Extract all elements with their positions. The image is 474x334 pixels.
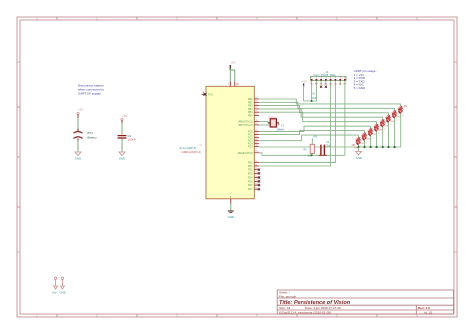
junction D2 bus xyxy=(394,146,396,148)
svg-text:Date: 4 jun 2008 17:27:49: Date: 4 jun 2008 17:27:49 xyxy=(305,306,341,310)
junction D5 bus xyxy=(376,146,378,148)
pin 8 GND stub xyxy=(230,199,232,204)
svg-text:D1: D1 xyxy=(394,112,398,116)
svg-text:+5V: +5V xyxy=(302,79,307,83)
power flag GND xyxy=(60,277,64,289)
wire RESET xyxy=(259,153,345,156)
svg-text:Size: A4: Size: A4 xyxy=(279,306,291,310)
junction D8 bus xyxy=(357,146,359,148)
svg-text:B: B xyxy=(17,155,19,159)
capacitor C2 xyxy=(319,141,332,155)
LED D5 xyxy=(370,127,381,136)
resistor R1 xyxy=(399,106,402,109)
svg-text:File: pov.sch: File: pov.sch xyxy=(279,294,296,298)
wire R2 anode drop xyxy=(394,108,396,111)
svg-text:KiCad E.D.A. eeschema (2010-0: KiCad E.D.A. eeschema (2010-01-05) xyxy=(279,311,331,315)
wire AVCC branch xyxy=(230,70,235,82)
svg-text:D8: D8 xyxy=(352,143,356,147)
svg-text:B: B xyxy=(454,155,456,159)
power flag +5V xyxy=(54,277,58,289)
wire D2 cathode xyxy=(394,118,396,147)
pin 23 PC0 xyxy=(248,130,259,134)
LED D1 xyxy=(394,109,405,118)
note: battery disconnect warning xyxy=(78,84,104,96)
svg-text:PB5: PB5 xyxy=(248,115,253,118)
ground (battery) xyxy=(75,152,81,156)
pin 10 (PB7/XTAL2) xyxy=(238,123,259,127)
wire VCC xyxy=(229,68,231,82)
svg-text:PD1: PD1 xyxy=(248,165,253,168)
svg-text:D7: D7 xyxy=(358,138,362,142)
svg-text:PD2: PD2 xyxy=(248,169,253,172)
title block xyxy=(277,290,453,314)
pin 28 PC5 xyxy=(248,145,259,149)
svg-text:(16MHz): (16MHz) xyxy=(268,117,277,119)
pin 19 PB5 xyxy=(248,114,259,118)
svg-text:GND: GND xyxy=(60,290,66,294)
junction D3 bus xyxy=(387,146,389,148)
wire PC1 to D7 xyxy=(259,131,365,135)
wire PB4 to D5 xyxy=(259,112,377,122)
wire battery bottom xyxy=(77,141,79,152)
svg-text:GND: GND xyxy=(228,215,234,219)
resistor R5 xyxy=(375,124,378,127)
svg-text:GND: GND xyxy=(75,157,81,161)
J1 pin 4 xyxy=(325,74,328,87)
J1 pin 1 xyxy=(310,74,313,85)
svg-text:PC5: PC5 xyxy=(248,146,253,149)
svg-text:D2: D2 xyxy=(388,116,392,120)
svg-text:+5V: +5V xyxy=(78,108,83,112)
svg-text:RS: RS xyxy=(343,84,347,86)
crystal X1 xyxy=(268,117,286,132)
pin 26 PC3 xyxy=(248,139,259,143)
J1 pin 3 xyxy=(320,74,323,87)
wire R6 anode drop xyxy=(370,126,372,129)
svg-text:PD7: PD7 xyxy=(248,188,253,191)
svg-text:A: A xyxy=(454,60,456,64)
svg-text:Battery: Battery xyxy=(88,135,98,139)
svg-text:GND: GND xyxy=(356,156,362,160)
svg-text:D3: D3 xyxy=(382,121,386,125)
pin 32 PD2 xyxy=(248,168,260,172)
svg-text:PD6: PD6 xyxy=(248,184,253,187)
wire C1 bottom xyxy=(121,139,123,152)
resistor R9 xyxy=(304,135,318,157)
wire PC5 / LED cathode bus xyxy=(259,146,401,148)
svg-text:D5: D5 xyxy=(370,129,374,133)
resistor R8 xyxy=(357,138,360,141)
wire PB0 to D1 xyxy=(259,99,401,104)
junction D6 bus xyxy=(370,146,372,148)
pin 17 PB3 xyxy=(248,107,259,111)
J1 pin 5 xyxy=(329,74,333,85)
wire GND (IC1) xyxy=(230,204,232,211)
pin 1 PC6 no-connect xyxy=(202,93,207,95)
ground (LED bus) xyxy=(356,147,363,160)
svg-text:+5V: +5V xyxy=(52,290,57,294)
pin 7 VCC stub xyxy=(229,82,231,87)
J1 pin 8 xyxy=(343,74,347,85)
note: UART pin usage xyxy=(354,69,378,90)
LED D4 xyxy=(376,122,387,131)
wire D6 cathode xyxy=(370,136,372,147)
wire PC0 to D6 xyxy=(259,126,371,131)
pin 25 PC2 xyxy=(248,136,259,140)
svg-text:(PB7/XTAL2): (PB7/XTAL2) xyxy=(238,124,253,127)
svg-text:(D-in,p1)(RP-P): (D-in,p1)(RP-P) xyxy=(180,147,197,150)
wire C1 top xyxy=(121,123,123,135)
svg-text:UART 5V supply.: UART 5V supply. xyxy=(78,92,102,96)
svg-text:X1: X1 xyxy=(281,123,285,127)
svg-text:A: A xyxy=(17,60,19,64)
pin 10 PD6 xyxy=(248,183,260,187)
resistor R6 xyxy=(369,129,372,132)
svg-text:PD4: PD4 xyxy=(248,177,253,180)
pin 16 PB2 xyxy=(248,104,259,108)
wire D8 cathode xyxy=(358,145,360,147)
ground (IC1) xyxy=(228,211,234,213)
wire R3 anode drop xyxy=(388,113,390,116)
pin 30 PD0 xyxy=(248,161,259,165)
svg-text:(AREF,p20)(PC-6): (AREF,p20)(PC-6) xyxy=(182,151,202,154)
wire +5V to J1 pins 1,2 xyxy=(304,85,317,101)
svg-text:+5V: +5V xyxy=(231,61,236,65)
svg-text:Id: 1/1: Id: 1/1 xyxy=(424,311,433,315)
power +5V (C1) xyxy=(121,114,127,123)
pin 11 PD7 xyxy=(248,188,260,192)
svg-text:PD3: PD3 xyxy=(248,172,253,175)
svg-text:1K: 1K xyxy=(312,92,315,95)
svg-text:Rev: 1.0: Rev: 1.0 xyxy=(418,306,430,310)
svg-text:R1: R1 xyxy=(404,104,408,108)
svg-text:100nF: 100nF xyxy=(128,138,136,142)
pin 18 PB4 xyxy=(248,111,259,115)
wire XTAL2 xyxy=(259,123,279,125)
wire PB3 to D4 xyxy=(259,109,383,117)
pin 15 PB1 xyxy=(248,101,259,105)
capacitor C1 xyxy=(118,136,127,138)
svg-text:Title: Persistence of Vision: Title: Persistence of Vision xyxy=(279,300,351,306)
J1 pin 6 xyxy=(334,74,338,85)
pin 9 (PB6/XTAL1) xyxy=(238,120,259,124)
power +5V (IC1) xyxy=(230,61,236,70)
pin 29 RESET(PC6) xyxy=(238,151,259,155)
pin 24 PC1 xyxy=(248,133,259,137)
power +5V (battery) xyxy=(77,108,84,118)
LED D6 xyxy=(364,131,375,140)
svg-text:D6: D6 xyxy=(364,134,368,138)
svg-text:+5V: +5V xyxy=(122,114,127,118)
svg-text:BT1: BT1 xyxy=(88,131,94,135)
wire PD0 to J1 pin6 xyxy=(259,85,335,163)
power +5V (J1) xyxy=(302,79,307,86)
connector J1 body xyxy=(311,70,347,80)
svg-text:+5V: +5V xyxy=(313,135,318,138)
J1 pin 2 xyxy=(315,74,319,85)
junction R9/reset xyxy=(311,154,313,156)
LED D2 xyxy=(388,113,399,122)
wire XTAL1 xyxy=(259,121,268,123)
wire PB1 to D2 xyxy=(259,102,395,108)
wire PC3 to D8 xyxy=(259,135,359,141)
battery BT1 xyxy=(74,129,83,142)
wire J1 pin8 to reset xyxy=(344,85,346,155)
svg-text:5 = GND: 5 = GND xyxy=(354,86,367,90)
wire PB2 to D3 xyxy=(259,106,389,113)
svg-text:PD5: PD5 xyxy=(248,180,253,183)
svg-text:RESET(PC6): RESET(PC6) xyxy=(238,152,253,155)
pin 27 PC4 xyxy=(248,142,259,146)
wire R8 anode drop xyxy=(358,135,360,138)
LED D7 xyxy=(358,136,369,145)
resistor R7 xyxy=(363,133,366,136)
junction D7 bus xyxy=(363,146,365,148)
wire D5 cathode xyxy=(376,131,378,147)
IC1 ATMEGA8 body xyxy=(206,86,254,199)
LED D8 xyxy=(352,140,363,149)
wire R4 anode drop xyxy=(382,117,384,120)
pin 2 PD4 xyxy=(248,176,260,180)
svg-text:10K: 10K xyxy=(312,97,317,100)
LED D3 xyxy=(382,118,393,127)
wire R5 anode drop xyxy=(376,122,378,125)
pin 9 PD5 xyxy=(248,180,260,184)
svg-text:D4: D4 xyxy=(376,125,380,129)
J1 pin 7 xyxy=(339,74,343,85)
resistor R4 xyxy=(381,120,384,123)
pin 31 PD1 xyxy=(248,164,259,168)
pin 1 PD3 xyxy=(248,172,260,176)
resistor R2 xyxy=(393,111,396,114)
svg-text:GN: GN xyxy=(329,84,333,86)
pin 20 AVCC stub xyxy=(234,82,236,87)
wire D7 cathode xyxy=(364,140,366,147)
wire D1 cathode xyxy=(400,113,402,147)
wire D4 cathode xyxy=(382,127,384,147)
wire R1 anode drop xyxy=(400,104,402,107)
pin 14 PB0 xyxy=(248,97,259,101)
svg-text:GND: GND xyxy=(119,157,125,161)
svg-text:PC6: PC6 xyxy=(208,93,213,96)
svg-text:16MHz: 16MHz xyxy=(276,128,285,132)
ground (C1) xyxy=(119,152,125,156)
resistor R3 xyxy=(387,115,390,118)
wire R7 anode drop xyxy=(364,131,366,134)
wire D3 cathode xyxy=(388,122,390,147)
wire PD1 to J1 pin5 xyxy=(259,85,331,166)
junction D4 bus xyxy=(382,146,384,148)
wire battery top xyxy=(77,118,79,130)
